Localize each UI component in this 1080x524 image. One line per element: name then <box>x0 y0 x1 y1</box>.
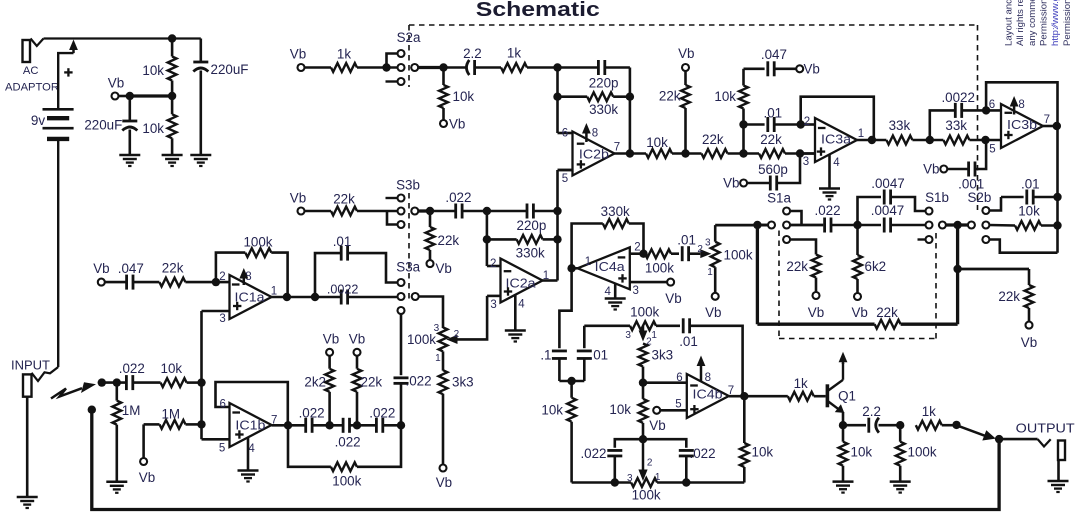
resistor 22k (S3b shunt) <box>429 211 432 227</box>
ground (output shunt) <box>890 480 911 483</box>
svg-text:.1: .1 <box>540 347 551 362</box>
svg-text:7: 7 <box>614 141 620 153</box>
wire bottom fb row <box>901 323 958 326</box>
potentiometer 100k (IC4b fb) <box>584 324 630 327</box>
capacitor .022 (twin-T left) <box>615 439 643 448</box>
capacitor .022 (input) <box>125 375 128 390</box>
node IC4a output <box>567 264 575 272</box>
wire IC2a right column to IC2b pin5 <box>556 170 559 281</box>
power arrow IC2b pin8 <box>585 132 588 142</box>
resistor 10k (divider upper) <box>171 39 174 57</box>
svg-text:S2a: S2a <box>397 30 421 45</box>
node 22k shunt (IC2b row) <box>681 149 689 157</box>
resistor 22k (fb row) <box>875 320 901 329</box>
resistor 10k (divider lower) <box>171 96 174 114</box>
wire IC2a left column <box>486 211 489 266</box>
svg-text:2: 2 <box>490 258 496 270</box>
node Vb (S2a shunt) <box>440 120 447 127</box>
switch S3a pole <box>412 293 419 300</box>
svg-text:220p: 220p <box>517 218 547 233</box>
node IC4b pin6 <box>639 379 647 387</box>
svg-text:3: 3 <box>219 313 225 325</box>
svg-text:IC1b: IC1b <box>235 417 265 432</box>
svg-text:10k: 10k <box>646 135 668 150</box>
node IC1a fb <box>283 293 291 301</box>
resistor 1M (input shunt) <box>116 383 119 401</box>
svg-text:9v: 9v <box>31 113 46 128</box>
wire IC1b pin4 to ground <box>247 438 250 471</box>
svg-text:7: 7 <box>1044 114 1050 126</box>
wire fb row up to S1a node <box>756 225 759 324</box>
svg-text:22k: 22k <box>702 132 724 147</box>
node output switch <box>952 421 960 429</box>
svg-text:IC1a: IC1a <box>235 290 266 305</box>
svg-text:.022: .022 <box>814 203 840 218</box>
capacitor .022 (twin-T right) <box>643 439 686 448</box>
svg-text:10k: 10k <box>541 403 563 418</box>
svg-text:3: 3 <box>490 299 496 311</box>
capacitor .0047 (lower) <box>858 224 882 227</box>
wire IC2b left column <box>556 68 559 134</box>
svg-text:1: 1 <box>858 128 864 140</box>
svg-text:Vb: Vb <box>852 305 868 320</box>
node IC3a output <box>868 136 876 144</box>
wire output jack sleeve <box>1057 460 1060 481</box>
svg-text:2: 2 <box>647 458 653 469</box>
svg-text:3: 3 <box>632 285 638 297</box>
wire S3a bottom contact down <box>400 314 403 375</box>
node IC3a pin2 <box>797 120 805 128</box>
capacitor .047 (IC1a input) <box>105 281 127 284</box>
wire switch node column <box>956 225 959 324</box>
svg-text:8: 8 <box>705 372 711 384</box>
svg-text:Permission: Permission <box>1062 0 1073 46</box>
resistor 33k (2) <box>943 136 969 145</box>
svg-text:5: 5 <box>989 144 995 156</box>
node IC3a pin3 <box>796 149 804 157</box>
svg-text:.01: .01 <box>1021 177 1040 192</box>
wire S1a top contact loop <box>790 211 802 225</box>
resistor 1k (into IC2b) <box>501 63 527 72</box>
resistor 22k (S3b) <box>304 210 331 213</box>
node Vb (S3b) <box>298 208 305 215</box>
wire battery positive with arrow to rail <box>58 53 73 109</box>
node IC3b pin5 <box>981 136 989 144</box>
battery 9v <box>43 108 74 111</box>
svg-text:Vb: Vb <box>436 261 452 276</box>
wire twin-T bottom row <box>572 481 632 484</box>
resistor 330k (IC2b feedback) <box>558 95 588 98</box>
node 22k (cascade) <box>353 421 361 429</box>
svg-text:100k: 100k <box>243 234 272 249</box>
node Vb (S2a) <box>298 64 305 71</box>
svg-text:2: 2 <box>804 116 810 128</box>
svg-text:5: 5 <box>562 173 568 185</box>
svg-text:10k: 10k <box>851 445 873 460</box>
switch S3b pole <box>411 208 418 215</box>
op-amp IC3b feedback loop <box>986 82 1057 126</box>
resistor 100k (IC4a input) <box>645 249 671 258</box>
node Vb input (IC1a) <box>98 279 105 286</box>
svg-text:3k3: 3k3 <box>652 347 674 362</box>
resistor 10k (Q1 emitter) <box>842 425 845 442</box>
svg-text:10k: 10k <box>161 361 183 376</box>
svg-text:10k: 10k <box>142 63 164 78</box>
svg-text:IC3b: IC3b <box>1007 117 1037 132</box>
svg-text:All rights rese: All rights rese <box>1015 0 1026 46</box>
resistor 10k (bridged-T leg) <box>742 69 745 86</box>
svg-text:Vb: Vb <box>108 76 124 91</box>
svg-text:1M: 1M <box>122 403 141 418</box>
svg-text:100k: 100k <box>632 488 661 503</box>
svg-text:22k: 22k <box>361 374 383 389</box>
svg-text:S3a: S3a <box>396 259 420 274</box>
svg-text:1: 1 <box>435 353 441 364</box>
ground (input jack) <box>17 496 38 499</box>
svg-text:IC4a: IC4a <box>595 259 626 274</box>
wire Q1 emitter <box>842 412 845 425</box>
op-amp IC2b <box>573 132 615 176</box>
svg-text:any commerc: any commerc <box>1027 0 1038 46</box>
svg-text:Vb: Vb <box>678 46 694 61</box>
op-amp IC4b <box>687 374 729 418</box>
resistor 100k (IC1a feedback) <box>216 253 245 283</box>
wire IC4a pin3 to Vb <box>630 281 668 284</box>
resistor 2k2 (to Vb) <box>326 349 333 356</box>
svg-text:.022: .022 <box>299 405 325 420</box>
svg-text:.01: .01 <box>763 105 782 120</box>
node 10k/column <box>197 378 205 386</box>
svg-text:S3b: S3b <box>396 177 420 192</box>
node IC1a output/.01 branch <box>311 293 319 301</box>
svg-text:.022: .022 <box>580 446 606 461</box>
svg-text:2k2: 2k2 <box>304 374 326 389</box>
output switch arrow <box>959 426 985 436</box>
resistor 100k (IC1b fb) <box>288 425 331 467</box>
svg-text:IC3a: IC3a <box>821 131 852 146</box>
svg-text:1k: 1k <box>507 46 521 61</box>
node IC1b output <box>284 421 292 429</box>
wire S3a pole to pot <box>419 297 444 329</box>
svg-text:.01: .01 <box>677 232 696 247</box>
resistor 1k (Q1 base) <box>788 392 814 401</box>
node bridged-T center <box>739 149 747 157</box>
wire IC1a output row <box>272 296 341 299</box>
svg-text:S1b: S1b <box>925 190 949 205</box>
wire input row <box>102 381 126 384</box>
svg-text:8: 8 <box>1018 99 1024 111</box>
svg-text:6k2: 6k2 <box>865 259 887 274</box>
svg-text:.01: .01 <box>679 334 698 349</box>
capacitor .022 (cascade 1) <box>304 418 307 433</box>
capacitor .01 (IC4 input) <box>583 326 586 348</box>
node 22k branch <box>953 265 961 273</box>
output jack tip contact <box>1038 439 1051 446</box>
svg-text:2.2: 2.2 <box>862 404 881 419</box>
resistor 22k (to Vb) <box>354 349 361 356</box>
capacitor 220p (IC2b) <box>558 66 599 69</box>
op-amp IC1b <box>230 403 272 447</box>
svg-text:6: 6 <box>989 99 995 111</box>
wire S1a bottom contact to 22k <box>790 240 816 255</box>
svg-text:Vb: Vb <box>723 176 739 191</box>
capacitor 560p (to Vb) <box>740 180 747 187</box>
wire bridged-T center up <box>742 125 745 154</box>
svg-text:.047: .047 <box>761 47 787 62</box>
node .022/220p <box>483 207 491 215</box>
ground (Vb filter cap) <box>119 154 140 157</box>
svg-text:2: 2 <box>219 271 225 283</box>
resistor 3k3 (filter) <box>442 351 445 370</box>
capacitor .001 (to Vb) <box>940 166 947 173</box>
svg-text:1: 1 <box>585 256 591 268</box>
dashed box (pot board) left edge <box>778 231 780 339</box>
svg-text:Vb: Vb <box>323 331 339 346</box>
node Vb divider junction <box>168 92 176 100</box>
svg-text:Vb: Vb <box>93 261 109 276</box>
ground (IC1b) <box>238 469 259 472</box>
wire IC2b right column <box>629 68 632 154</box>
svg-text:8: 8 <box>592 128 598 140</box>
svg-text:1k: 1k <box>337 46 351 61</box>
svg-text:Vb: Vb <box>804 62 820 77</box>
resistor 10k (input) <box>133 381 161 384</box>
svg-text:.022: .022 <box>119 361 145 376</box>
node Vb/220uF junction <box>126 92 134 100</box>
resistor 22k (S1a to Vb) <box>812 255 821 278</box>
label + battery polarity <box>64 71 72 73</box>
switch S1a pole <box>768 222 775 229</box>
svg-text:5: 5 <box>219 442 225 454</box>
node IC3b output <box>1053 122 1061 130</box>
node output divider <box>896 421 904 429</box>
ground (IC4a) <box>605 297 626 300</box>
svg-text:100k: 100k <box>724 248 753 263</box>
dashed box (pot board) bottom edge <box>779 338 936 340</box>
node 2k2 <box>325 421 333 429</box>
svg-text:Vb: Vb <box>665 291 681 306</box>
svg-text:330k: 330k <box>589 102 618 117</box>
potentiometer 100k (twin-T) <box>642 439 645 470</box>
svg-text:3k3: 3k3 <box>452 374 474 389</box>
svg-text:220uF: 220uF <box>211 62 249 77</box>
ground (supply filter cap) <box>190 154 211 157</box>
svg-text:Schematic: Schematic <box>476 0 600 21</box>
svg-text:.0047: .0047 <box>871 203 905 218</box>
wire S2b bottom contact loop <box>989 240 1057 253</box>
svg-text:1: 1 <box>543 270 549 282</box>
capacitor .022 (cascade 3) <box>375 418 378 433</box>
svg-text:Q1: Q1 <box>838 389 856 404</box>
capacitor 220uF (supply filter) <box>200 39 203 63</box>
switch S1b bottom stub <box>918 238 926 240</box>
wire op-amp bias column <box>200 311 203 439</box>
svg-text:4: 4 <box>604 286 611 298</box>
node bypass contact <box>88 406 96 414</box>
node 330k left (IC2b) <box>553 93 561 101</box>
power arrow IC1a pin8 <box>243 277 246 285</box>
resistor 1M (bias) <box>140 458 147 465</box>
wire IC4b output <box>729 395 788 398</box>
wire S1a middle row <box>790 224 823 227</box>
wire input jack sleeve <box>26 397 29 497</box>
switch S2b pole <box>968 222 975 229</box>
svg-text:Layout and sch: Layout and sch <box>1004 0 1015 46</box>
svg-text:2: 2 <box>454 329 460 340</box>
node 33k/0022 <box>926 136 934 144</box>
svg-text:6: 6 <box>219 399 225 411</box>
resistor 1k (output) <box>916 421 942 430</box>
svg-text:4: 4 <box>833 157 840 169</box>
svg-text:560p: 560p <box>758 162 788 177</box>
transistor Q1 <box>826 384 830 407</box>
svg-text:10k: 10k <box>752 445 774 460</box>
svg-text:Vb: Vb <box>705 305 721 320</box>
node .01 right <box>1053 193 1061 201</box>
svg-text:Vb: Vb <box>808 305 824 320</box>
node Vb source terminal <box>112 93 119 100</box>
wire IC4a pin2 stub <box>630 252 644 255</box>
svg-text:IC2a: IC2a <box>506 275 537 290</box>
svg-text:3: 3 <box>705 238 711 249</box>
svg-text:Vb: Vb <box>1021 335 1037 350</box>
dashed boundary left edge upper segment <box>408 25 410 87</box>
node twin-T bottom right <box>682 478 690 486</box>
svg-text:S2b: S2b <box>967 190 991 205</box>
svg-text:Permission: Permission <box>1038 0 1049 46</box>
svg-text:10k: 10k <box>142 121 164 136</box>
svg-text:100k: 100k <box>407 332 436 347</box>
resistor 22k (IC1a input) <box>133 281 159 284</box>
svg-text:AC: AC <box>23 65 39 77</box>
node cascade right <box>397 421 405 429</box>
wire to 22k (right) <box>958 268 1029 271</box>
node Vb (3k3) <box>440 465 447 472</box>
capacitor .022 (cascade 2) <box>342 418 345 433</box>
svg-text:100k: 100k <box>645 261 674 276</box>
node caps merge <box>559 380 584 383</box>
wire IC2a pin4 to ground <box>514 294 517 330</box>
svg-text:22k: 22k <box>876 305 898 320</box>
wire supply top rail <box>44 37 201 39</box>
wire bypass to output jack <box>92 410 999 510</box>
ground (output jack) <box>1048 480 1069 483</box>
power arrow IC4b pin8 <box>700 365 703 383</box>
resistor 22k (bridged-T 1) <box>702 149 728 158</box>
svg-text:Vb: Vb <box>449 116 465 131</box>
wire S1b-S2b row <box>946 223 968 226</box>
pot wiper arrow down <box>642 326 645 332</box>
resistor 100k (output shunt) <box>899 425 902 442</box>
ground (IC3a) <box>819 187 840 190</box>
wire battery negative down left side <box>57 139 59 367</box>
resistor 3k3 (IC4b) <box>639 344 648 367</box>
switch S1b pole <box>939 222 946 229</box>
node Q1 emitter <box>839 421 847 429</box>
svg-text:.0047: .0047 <box>871 176 905 191</box>
AC adaptor jack <box>23 40 31 62</box>
resistor 330k (IC4a feedback) <box>572 224 603 269</box>
svg-text:100k: 100k <box>332 474 361 489</box>
power arrow IC3b pin8 <box>1013 105 1016 115</box>
potentiometer 100k (filter) <box>439 327 448 351</box>
resistor 22k (shunt to Vb) <box>682 64 689 71</box>
capacitor .047 (to Vb) <box>744 68 765 71</box>
dashed boundary left edge lower segment <box>408 193 410 303</box>
resistor 22k (bridged-T 2) <box>759 149 785 158</box>
capacitor 2.2 (output) <box>843 424 866 427</box>
wire IC4b pin6 row <box>643 381 687 384</box>
node S2a feed <box>382 63 390 71</box>
capacitor .0022 (IC3b) <box>930 110 956 140</box>
svg-text:22k: 22k <box>786 259 808 274</box>
svg-text:INPUT: INPUT <box>11 358 50 372</box>
wire to S1a pole <box>757 224 768 227</box>
wire IC2a pin3 <box>487 295 500 298</box>
svg-text:Vb: Vb <box>436 475 452 490</box>
ground (1M) <box>106 481 127 484</box>
wire IC3a output row <box>857 139 886 142</box>
svg-text:10k: 10k <box>609 402 631 417</box>
capacitor .0047 (upper) <box>858 197 882 225</box>
node .01/10k <box>739 120 747 128</box>
svg-text:1: 1 <box>651 330 657 341</box>
svg-text:330k: 330k <box>601 204 630 219</box>
svg-text:6: 6 <box>562 128 568 140</box>
svg-text:Vb: Vb <box>649 418 665 433</box>
svg-text:4: 4 <box>518 299 525 311</box>
svg-text:.0022: .0022 <box>327 283 359 297</box>
ground (divider) <box>162 154 183 157</box>
svg-text:10k: 10k <box>1018 204 1040 219</box>
node IC4a pin2 <box>639 250 647 258</box>
svg-text:OUTPUT: OUTPUT <box>1016 421 1075 436</box>
input jack <box>23 374 32 396</box>
svg-text:IC4b: IC4b <box>693 387 723 402</box>
svg-text:22k: 22k <box>438 233 460 248</box>
svg-text:33k: 33k <box>889 118 911 133</box>
node 330k right (IC2b) <box>626 93 634 101</box>
capacitor .01 (IC4a) <box>681 246 684 261</box>
potentiometer 100k (boost) <box>700 249 711 258</box>
capacitor .022 (S1a row) <box>823 218 826 233</box>
svg-text:1k: 1k <box>794 376 808 391</box>
capacitor .01 (IC4b fb) <box>682 318 685 333</box>
node IC2b output <box>626 149 634 157</box>
output jack <box>1058 441 1065 461</box>
op-amp IC4a (left pointing) <box>578 247 630 289</box>
svg-text:1M: 1M <box>161 407 180 422</box>
node 10k right <box>1053 221 1061 229</box>
dashed boundary (switch daughter-board) top edge <box>409 24 978 26</box>
capacitor .01 (IC3a fb input) <box>744 123 765 126</box>
svg-text:.022: .022 <box>335 435 361 450</box>
capacitor 220p (IC2a) <box>487 210 527 213</box>
svg-text:ADAPTOR: ADAPTOR <box>5 81 59 93</box>
resistor 10k (IC4 input) <box>570 381 573 398</box>
node twin-T bottom left <box>611 478 619 486</box>
resistor 22k (right, to Vb) <box>1028 269 1031 285</box>
resistor 10k (IC2b out) <box>646 149 672 158</box>
node 1k/220p (IC2b) <box>553 63 561 71</box>
op-amp IC2a <box>501 259 543 303</box>
capacitor .0022 (to S3a) <box>340 290 343 305</box>
capacitor .022 (notch, vertical) <box>394 376 409 379</box>
resistor 6k2 (to Vb) <box>853 255 862 279</box>
svg-text:220p: 220p <box>589 75 619 90</box>
wire IC1b output row <box>272 424 305 427</box>
input jack tip contact <box>32 367 59 381</box>
